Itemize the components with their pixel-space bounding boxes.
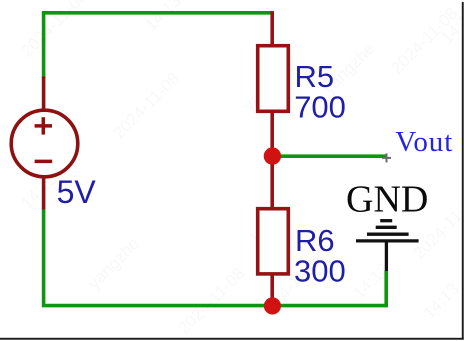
wire red lead source top [42, 77, 46, 112]
wire red lead to R5 top [270, 11, 274, 45]
wire red lead R6 bottom to bottom node [270, 274, 274, 306]
pin end cross at Vout [382, 153, 391, 162]
border frame bottom [0, 338, 464, 340]
wire Vout green [272, 154, 386, 158]
svg-text:700: 700 [294, 90, 346, 125]
svg-text:Vout: Vout [395, 126, 453, 158]
ground symbol [356, 221, 419, 271]
wire red lead node to R6 top [270, 156, 274, 209]
wire red lead source bottom [42, 177, 46, 210]
svg-text:300: 300 [294, 254, 346, 289]
node Vout junction dot [264, 147, 281, 164]
plus sign [35, 117, 52, 134]
minus sign [35, 160, 53, 164]
svg-text:GND: GND [346, 178, 428, 220]
voltage source V1 circle [11, 110, 78, 177]
resistor R5 body [258, 46, 289, 112]
svg-text:5V: 5V [57, 174, 97, 210]
border frame right [462, 2, 464, 340]
wire top horizontal green [44, 13, 272, 78]
wire red lead R5 bottom to node [270, 110, 274, 156]
resistor R6 body [258, 209, 289, 274]
wire bottom loop green: left bus down, bottom run, up to ground [44, 209, 387, 306]
node bottom junction dot [264, 297, 281, 314]
